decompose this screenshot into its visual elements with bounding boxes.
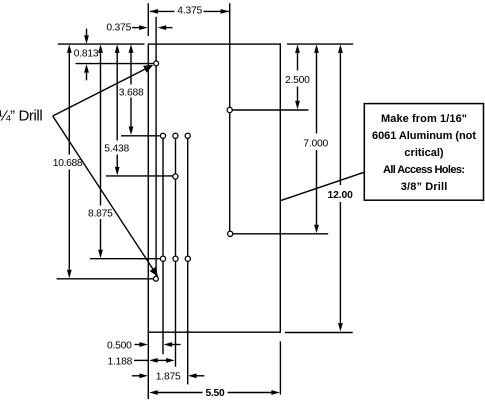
wire: hole 1 level line	[76, 63, 157, 65]
wire: column B extension	[175, 136, 177, 367]
leader: 1/4 drill upper branch	[53, 65, 154, 116]
wire: top edge extension left	[58, 43, 145, 45]
hole cluster top C	[185, 133, 190, 138]
hole cluster bottom A	[160, 256, 165, 261]
hole H1 top-left (1/4 drill)	[154, 61, 159, 66]
wire: bottom edge extension right	[285, 332, 353, 334]
wire: bottom cluster level line	[90, 258, 160, 260]
hole H2 right upper (access)	[227, 107, 232, 112]
dimension 2.500	[285, 44, 310, 109]
svg-text:1.875: 1.875	[156, 372, 181, 383]
leader: 1/4 drill lower branch	[53, 116, 158, 277]
wire: bottom hole level line	[57, 278, 153, 280]
wire: column C extension	[187, 136, 189, 385]
svg-text:5.438: 5.438	[104, 144, 129, 155]
wire: right edge extension below plate	[279, 341, 281, 394]
dimension 5.438	[104, 44, 129, 175]
dimension 3.688	[119, 44, 144, 135]
hole H3 right lower (access)	[228, 231, 233, 236]
dimension 8.875	[88, 44, 113, 258]
svg-text:0.375: 0.375	[106, 22, 131, 33]
dimension 12.00	[328, 44, 354, 331]
dimension 5.50	[149, 388, 280, 399]
svg-text:critical): critical)	[404, 147, 443, 159]
svg-text:7.000: 7.000	[303, 138, 328, 149]
svg-text:5.50: 5.50	[206, 388, 225, 399]
svg-text:1.188: 1.188	[108, 356, 133, 367]
hole cluster bottom B	[173, 256, 178, 261]
hole cluster top B	[173, 133, 178, 138]
svg-text:4.375: 4.375	[177, 6, 202, 17]
dimension 4.375	[149, 6, 229, 17]
wire: top edge extension right	[287, 43, 353, 45]
plate outline	[148, 44, 280, 332]
hole bottom-left (1/4 drill)	[154, 276, 159, 281]
svg-text:Make from 1/16": Make from 1/16"	[381, 113, 467, 125]
svg-text:3.688: 3.688	[119, 88, 144, 99]
dimension 7.000	[303, 44, 328, 233]
wire: middle hole level line	[106, 175, 173, 177]
wire: column A extension	[162, 136, 164, 354]
wire: right hole column extension at 4.375	[229, 3, 231, 234]
hole middle	[173, 174, 178, 179]
svg-text:All Access Holes:: All Access Holes:	[383, 164, 465, 176]
dimension 0.375	[106, 22, 172, 33]
svg-text:0.500: 0.500	[107, 340, 132, 351]
svg-text:3/8” Drill: 3/8” Drill	[401, 181, 448, 193]
wire: top cluster level line	[121, 135, 160, 137]
leader: note box	[281, 172, 364, 200]
wire: hole 3 level line	[230, 233, 328, 235]
dimension 0.500	[107, 340, 181, 351]
svg-text:10.688: 10.688	[53, 158, 83, 169]
dimension 0.813	[74, 29, 99, 81]
wire: hole 2 level line	[230, 109, 309, 111]
svg-text:6061 Aluminum (not: 6061 Aluminum (not	[372, 130, 476, 142]
note box	[364, 104, 483, 201]
dimension 1.875	[132, 372, 205, 383]
wire: left edge extension below plate	[147, 332, 149, 399]
wire: hole column extension at 0.375	[155, 17, 157, 279]
svg-text:0.813: 0.813	[74, 48, 99, 59]
hole cluster bottom C	[185, 256, 190, 261]
svg-text:8.875: 8.875	[88, 209, 113, 220]
hole cluster top A	[160, 133, 165, 138]
dimension 10.688	[53, 44, 83, 278]
svg-text:12.00: 12.00	[328, 190, 354, 201]
svg-text:¼” Drill: ¼” Drill	[0, 107, 42, 124]
dimension 1.188	[108, 356, 175, 367]
wire: left edge extension above plate	[147, 3, 149, 36]
svg-text:2.500: 2.500	[285, 75, 310, 86]
